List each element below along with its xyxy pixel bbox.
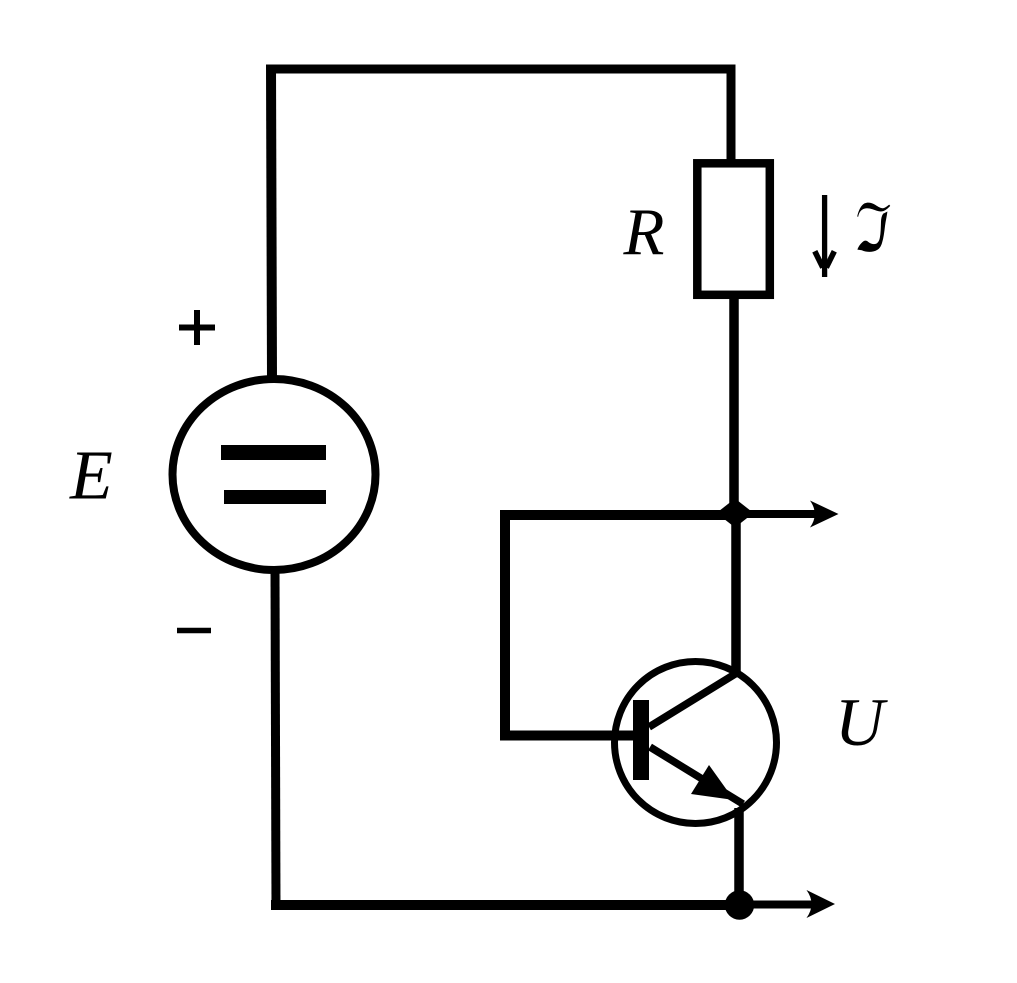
output arrow at node B: [748, 890, 835, 918]
svg-text:E: E: [69, 438, 113, 515]
transistor emitter arrowhead: [691, 765, 734, 800]
wire: right vertical (resistor bottom to node A): [729, 295, 739, 517]
transistor base bar: [633, 700, 649, 780]
transistor collector lead: [649, 671, 740, 727]
wire: left vertical upper (top wire down to battery + terminal): [271, 65, 272, 380]
wire: left vertical lower (battery - terminal down to bottom wire): [275, 570, 276, 910]
wire: top horizontal (battery + to resistor top): [267, 65, 735, 74]
output arrow at node A: [742, 501, 839, 528]
wire: base loop vertical: [500, 510, 510, 736]
node A (collector-base output junction): [717, 499, 754, 528]
transistor emitter lead: [650, 747, 743, 804]
battery E upper plate bar: [221, 445, 326, 460]
label + (positive terminal): [179, 310, 215, 345]
wire: base loop horizontal top (node A to left corner): [505, 510, 739, 520]
current arrow (downwards beside resistor): [815, 195, 835, 277]
battery E lower plate bar: [224, 490, 326, 504]
wire: bottom horizontal (battery - to emitter node): [271, 900, 744, 910]
wire: collector vertical (node A down to transistor collector): [731, 509, 741, 676]
transistor U circle: [615, 662, 777, 824]
label - (negative terminal): [177, 628, 211, 634]
node B (emitter output junction): [725, 890, 754, 919]
svg-text:R: R: [623, 195, 665, 269]
label current (Fraktur I): [857, 203, 890, 217]
wire: right vertical upper (top wire to resistor): [727, 65, 736, 164]
svg-text:U: U: [835, 684, 888, 760]
wire: base loop horizontal bottom (to transistor base): [500, 731, 634, 741]
wire: emitter vertical (transistor emitter down to node B): [734, 808, 744, 909]
resistor R: [697, 163, 770, 294]
battery E (DC voltage source circle): [173, 379, 376, 570]
